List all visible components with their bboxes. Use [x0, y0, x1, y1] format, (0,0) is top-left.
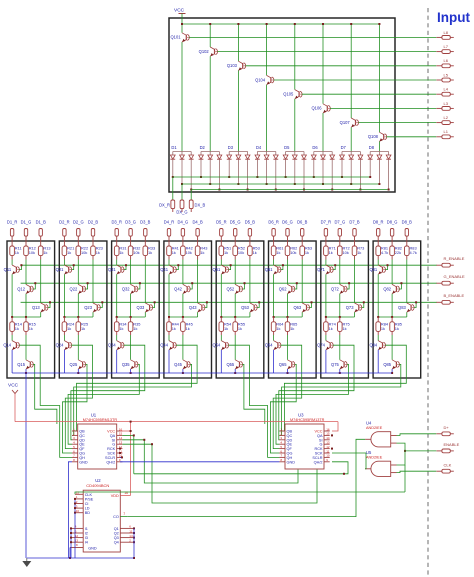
- svg-text:1k: 1k: [67, 250, 71, 255]
- svg-text:Q1: Q1: [114, 527, 119, 531]
- svg-text:Q55: Q55: [226, 362, 234, 367]
- svg-text:D8_R: D8_R: [373, 220, 384, 225]
- svg-text:AND2IEE: AND2IEE: [366, 455, 383, 459]
- svg-text:P/SE: P/SE: [85, 497, 94, 501]
- svg-text:Q72: Q72: [331, 286, 339, 291]
- svg-text:D6: D6: [312, 145, 318, 150]
- svg-text:SCK: SCK: [315, 452, 323, 456]
- svg-text:QH: QH: [79, 456, 85, 460]
- svg-text:QG: QG: [287, 452, 293, 456]
- svg-text:Q62: Q62: [279, 286, 287, 291]
- svg-text:L3: L3: [444, 101, 449, 106]
- svg-text:I4: I4: [85, 541, 88, 545]
- svg-text:1k: 1k: [186, 326, 190, 331]
- svg-text:D2_B: D2_B: [88, 220, 99, 225]
- svg-text:11: 11: [129, 529, 132, 533]
- svg-text:Q53: Q53: [241, 305, 249, 310]
- svg-text:7: 7: [123, 512, 125, 516]
- svg-text:SCK: SCK: [107, 452, 115, 456]
- svg-text:1k: 1k: [15, 250, 19, 255]
- svg-text:CI: CI: [85, 502, 89, 506]
- svg-text:QH: QH: [287, 456, 293, 460]
- svg-text:Q107: Q107: [340, 120, 351, 125]
- svg-text:1k: 1k: [343, 326, 347, 331]
- svg-text:Q21: Q21: [56, 267, 64, 272]
- svg-text:QE: QE: [79, 443, 85, 447]
- svg-text:1k: 1k: [119, 250, 123, 255]
- svg-text:Q103: Q103: [227, 63, 238, 68]
- svg-text:D7: D7: [341, 145, 347, 150]
- svg-text:QE: QE: [287, 443, 293, 447]
- svg-text:14: 14: [119, 436, 123, 440]
- svg-text:10: 10: [326, 454, 330, 458]
- svg-text:1k: 1k: [329, 250, 333, 255]
- svg-text:1k: 1k: [96, 250, 100, 255]
- svg-text:4.7k: 4.7k: [381, 250, 388, 255]
- svg-text:Q54: Q54: [213, 343, 221, 348]
- svg-text:1k: 1k: [224, 250, 228, 255]
- svg-text:1k: 1k: [253, 250, 257, 255]
- svg-text:1k: 1k: [29, 326, 33, 331]
- svg-text:VCC: VCC: [8, 383, 19, 389]
- svg-text:DX_G: DX_G: [176, 210, 187, 215]
- svg-text:L8: L8: [444, 30, 449, 35]
- svg-text:Q64: Q64: [265, 343, 273, 348]
- svg-text:14: 14: [129, 534, 133, 538]
- svg-text:SI: SI: [112, 438, 116, 442]
- svg-text:Q31: Q31: [108, 267, 116, 272]
- svg-text:G_ENABLE: G_ENABLE: [444, 274, 465, 279]
- svg-text:I2: I2: [85, 532, 88, 536]
- svg-text:Q13: Q13: [32, 305, 40, 310]
- svg-text:10k: 10k: [133, 250, 139, 255]
- svg-text:D1: D1: [171, 145, 177, 150]
- svg-text:1k: 1k: [43, 250, 47, 255]
- svg-text:Q14: Q14: [3, 343, 11, 348]
- svg-text:1k: 1k: [395, 326, 399, 331]
- svg-text:QA: QA: [317, 434, 323, 438]
- svg-text:Q34: Q34: [108, 343, 116, 348]
- svg-text:1k: 1k: [200, 250, 204, 255]
- svg-text:Q24: Q24: [56, 343, 64, 348]
- svg-text:D7_B: D7_B: [349, 220, 360, 225]
- svg-text:Q33: Q33: [137, 305, 145, 310]
- svg-text:D2_R: D2_R: [59, 220, 70, 225]
- svg-text:B_ENABLE: B_ENABLE: [444, 293, 465, 298]
- svg-text:1k: 1k: [224, 326, 228, 331]
- svg-text:1k: 1k: [172, 250, 176, 255]
- svg-text:Q15: Q15: [17, 362, 25, 367]
- svg-text:1k: 1k: [329, 326, 333, 331]
- svg-text:GND: GND: [79, 460, 88, 464]
- svg-text:1k: 1k: [81, 326, 85, 331]
- svg-text:SCLR: SCLR: [105, 456, 115, 460]
- svg-text:Q32: Q32: [122, 286, 130, 291]
- svg-text:D4: D4: [256, 145, 262, 150]
- svg-text:I1: I1: [85, 527, 88, 531]
- svg-text:DX_B: DX_B: [195, 203, 206, 208]
- svg-text:Input: Input: [437, 10, 470, 25]
- svg-text:QA: QA: [110, 434, 116, 438]
- svg-text:QG: QG: [79, 452, 85, 456]
- svg-text:16: 16: [124, 491, 128, 495]
- svg-text:G: G: [112, 443, 115, 447]
- svg-text:Q85: Q85: [383, 362, 391, 367]
- svg-text:VCC: VCC: [174, 8, 185, 14]
- svg-text:14: 14: [326, 436, 330, 440]
- svg-text:Q11: Q11: [4, 267, 12, 272]
- svg-text:Q61: Q61: [265, 267, 273, 272]
- svg-text:LD: LD: [85, 507, 90, 511]
- svg-text:Q43: Q43: [189, 305, 197, 310]
- svg-text:Q3: Q3: [114, 536, 119, 540]
- svg-text:QB: QB: [79, 430, 85, 434]
- svg-text:L4: L4: [444, 87, 449, 92]
- svg-text:D5_B: D5_B: [245, 220, 256, 225]
- svg-text:Q82: Q82: [383, 286, 391, 291]
- svg-text:D8_G: D8_G: [387, 220, 398, 225]
- svg-text:1k: 1k: [305, 250, 309, 255]
- svg-text:D+: D+: [444, 425, 450, 430]
- svg-text:D3: D3: [228, 145, 234, 150]
- svg-text:Q71: Q71: [317, 267, 325, 272]
- svg-text:D5: D5: [284, 145, 290, 150]
- svg-text:Q73: Q73: [346, 305, 354, 310]
- svg-text:D4_B: D4_B: [192, 220, 203, 225]
- svg-text:D3_G: D3_G: [125, 220, 136, 225]
- svg-text:DX_R: DX_R: [159, 203, 170, 208]
- svg-text:1k: 1k: [172, 326, 176, 331]
- svg-text:CLK: CLK: [444, 462, 452, 467]
- svg-text:10k: 10k: [81, 250, 87, 255]
- svg-text:Q108: Q108: [368, 134, 379, 139]
- svg-text:L1: L1: [444, 129, 449, 134]
- svg-text:QH/2: QH/2: [314, 460, 323, 464]
- svg-text:Q106: Q106: [311, 106, 322, 111]
- svg-text:RCK: RCK: [314, 447, 322, 451]
- svg-text:QF: QF: [287, 447, 293, 451]
- svg-text:1k: 1k: [15, 326, 19, 331]
- svg-text:D5_R: D5_R: [216, 220, 227, 225]
- svg-text:L6: L6: [444, 58, 449, 63]
- svg-text:1k: 1k: [119, 326, 123, 331]
- svg-text:D2: D2: [200, 145, 206, 150]
- svg-text:D6_G: D6_G: [282, 220, 293, 225]
- svg-text:D7_G: D7_G: [334, 220, 345, 225]
- svg-text:10k: 10k: [186, 250, 192, 255]
- svg-text:Q23: Q23: [84, 305, 92, 310]
- svg-text:D2_G: D2_G: [73, 220, 84, 225]
- svg-text:1k: 1k: [133, 326, 137, 331]
- svg-text:D1_G: D1_G: [21, 220, 32, 225]
- svg-text:1k: 1k: [276, 326, 280, 331]
- svg-text:D8: D8: [369, 145, 375, 150]
- svg-text:16: 16: [326, 427, 330, 431]
- svg-text:Q84: Q84: [369, 343, 377, 348]
- svg-text:Q12: Q12: [17, 286, 25, 291]
- svg-text:13: 13: [326, 441, 330, 445]
- svg-text:Q102: Q102: [199, 49, 210, 54]
- svg-text:U5: U5: [366, 450, 372, 455]
- svg-text:D3_B: D3_B: [140, 220, 151, 225]
- svg-text:Q45: Q45: [174, 362, 182, 367]
- svg-text:U1: U1: [91, 413, 97, 418]
- svg-text:Q35: Q35: [122, 362, 130, 367]
- svg-text:Q22: Q22: [70, 286, 78, 291]
- svg-text:ENABLE: ENABLE: [444, 442, 460, 447]
- svg-text:VDD: VDD: [111, 494, 119, 498]
- svg-text:Q4: Q4: [114, 541, 119, 545]
- svg-text:D1_R: D1_R: [7, 220, 18, 225]
- svg-text:L5: L5: [444, 72, 449, 77]
- svg-text:Q81: Q81: [369, 267, 377, 272]
- svg-text:15: 15: [326, 432, 330, 436]
- svg-text:1k: 1k: [276, 250, 280, 255]
- svg-text:QD: QD: [287, 438, 293, 442]
- svg-text:Q65: Q65: [279, 362, 287, 367]
- svg-text:GND: GND: [88, 547, 97, 551]
- svg-text:Q75: Q75: [331, 362, 339, 367]
- svg-text:D4_G: D4_G: [178, 220, 189, 225]
- svg-text:QB: QB: [287, 430, 293, 434]
- svg-text:Q101: Q101: [170, 35, 181, 40]
- svg-text:L2: L2: [444, 115, 449, 120]
- svg-text:Q25: Q25: [70, 362, 78, 367]
- svg-text:QD: QD: [79, 438, 85, 442]
- svg-text:11: 11: [326, 449, 329, 453]
- svg-text:QC: QC: [287, 434, 293, 438]
- svg-text:CO: CO: [113, 515, 119, 519]
- svg-text:1k: 1k: [357, 250, 361, 255]
- svg-text:VCC: VCC: [314, 430, 322, 434]
- svg-text:Q83: Q83: [398, 305, 406, 310]
- svg-text:Q63: Q63: [293, 305, 301, 310]
- svg-text:CLK: CLK: [85, 493, 93, 497]
- svg-text:D8_B: D8_B: [402, 220, 413, 225]
- svg-text:Q52: Q52: [226, 286, 234, 291]
- svg-text:D1_B: D1_B: [36, 220, 47, 225]
- svg-text:4.7k: 4.7k: [410, 250, 417, 255]
- svg-text:BD: BD: [85, 511, 91, 515]
- svg-text:10: 10: [76, 509, 80, 513]
- svg-text:1k: 1k: [148, 250, 152, 255]
- svg-text:VCC: VCC: [107, 430, 115, 434]
- svg-text:Q74: Q74: [317, 343, 325, 348]
- svg-text:D7_R: D7_R: [321, 220, 332, 225]
- svg-text:22k: 22k: [395, 250, 401, 255]
- svg-text:10k: 10k: [290, 250, 296, 255]
- svg-text:AND2IEE: AND2IEE: [366, 426, 383, 430]
- svg-text:15: 15: [119, 432, 123, 436]
- svg-text:10k: 10k: [238, 250, 244, 255]
- svg-text:CD4094BCN: CD4094BCN: [86, 483, 109, 488]
- svg-text:I3: I3: [85, 536, 88, 540]
- svg-text:Q42: Q42: [174, 286, 182, 291]
- svg-text:12: 12: [326, 445, 330, 449]
- svg-text:G: G: [320, 443, 323, 447]
- svg-text:U4: U4: [366, 421, 372, 426]
- svg-text:Q51: Q51: [213, 267, 221, 272]
- svg-text:10k: 10k: [29, 250, 35, 255]
- svg-text:L7: L7: [444, 44, 449, 49]
- svg-text:D6_B: D6_B: [297, 220, 308, 225]
- svg-text:1k: 1k: [290, 326, 294, 331]
- svg-text:Q105: Q105: [283, 92, 294, 97]
- svg-text:GND: GND: [287, 460, 296, 464]
- svg-text:10k: 10k: [343, 250, 349, 255]
- svg-text:SI: SI: [319, 438, 323, 442]
- svg-text:Q41: Q41: [160, 267, 168, 272]
- svg-text:1k: 1k: [67, 326, 71, 331]
- svg-text:SCLR: SCLR: [312, 456, 322, 460]
- svg-text:QC: QC: [79, 434, 85, 438]
- svg-text:1k: 1k: [238, 326, 242, 331]
- svg-text:Q44: Q44: [160, 343, 168, 348]
- svg-text:1k: 1k: [381, 326, 385, 331]
- svg-text:QH/2: QH/2: [106, 460, 115, 464]
- svg-text:R_ENABLE: R_ENABLE: [444, 256, 465, 261]
- svg-text:D3_R: D3_R: [111, 220, 122, 225]
- svg-text:D5_G: D5_G: [230, 220, 241, 225]
- svg-text:Q2: Q2: [114, 532, 119, 536]
- svg-text:QF: QF: [79, 447, 85, 451]
- svg-text:D6_R: D6_R: [268, 220, 279, 225]
- svg-text:U3: U3: [298, 413, 304, 418]
- svg-text:D4_R: D4_R: [164, 220, 175, 225]
- svg-text:RCK: RCK: [107, 447, 115, 451]
- svg-text:13: 13: [119, 441, 123, 445]
- svg-text:15: 15: [76, 491, 80, 495]
- svg-text:Q104: Q104: [255, 77, 266, 82]
